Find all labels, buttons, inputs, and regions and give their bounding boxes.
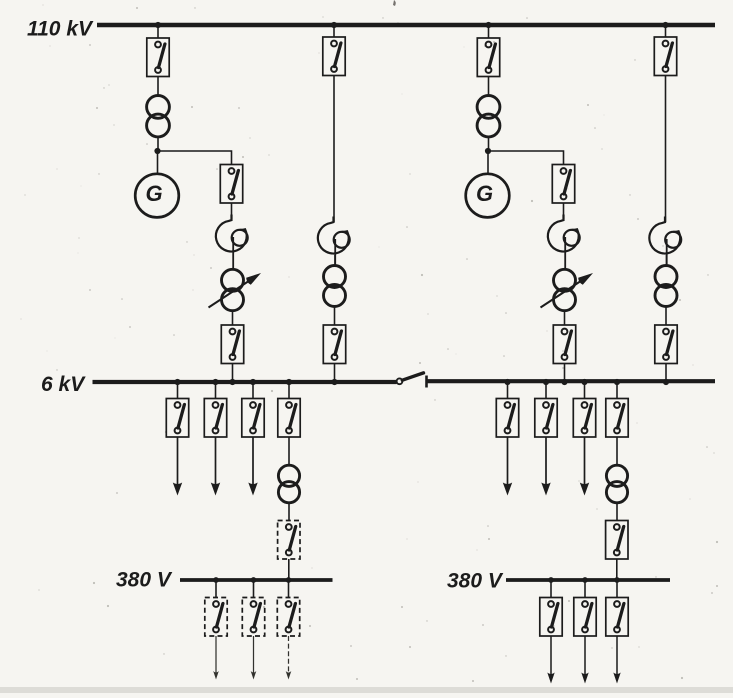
circuit breaker RG3 (380 V feeder) bbox=[606, 598, 628, 637]
junction dot L 380V feeder 3 bbox=[286, 577, 292, 583]
wire LB reactor to transformer bbox=[334, 255, 336, 266]
busbar 380 V (L) bbox=[180, 578, 333, 582]
wire RA breaker to transformer bbox=[488, 77, 490, 97]
load arrow LG1 bbox=[213, 636, 219, 680]
wire RB long drop to reactor bbox=[665, 76, 667, 223]
bus tie disconnector hinge bbox=[397, 378, 403, 384]
junction dot R 380V feeder 3 bbox=[614, 577, 620, 583]
reactor RL1 bbox=[548, 215, 580, 271]
distribution transformer RT4 (6/0.4 kV) bbox=[606, 465, 627, 503]
wire L 6kV feeder 1 stub bbox=[177, 382, 179, 399]
load arrow RG1 bbox=[547, 636, 554, 684]
transformer LT1 (unit step-up) bbox=[147, 96, 170, 137]
transformer RT1 (unit step-up) bbox=[477, 96, 500, 137]
circuit breaker LA3 (6 kV side) bbox=[221, 325, 243, 364]
wire L branch breaker to reactor bbox=[231, 203, 233, 219]
load arrow RF2 bbox=[541, 437, 550, 496]
wire LA3 breaker to 6 kV bus bbox=[232, 364, 234, 383]
wire R 6kV to 6/0.4 transformer bbox=[616, 437, 618, 466]
circuit breaker RG1 (380 V feeder) bbox=[540, 598, 562, 637]
junction dot RA on 110 kV bus bbox=[485, 22, 491, 28]
circuit breaker LLV (0.4 kV incomer) bbox=[278, 521, 300, 560]
circuit breaker RG2 (380 V feeder) bbox=[574, 598, 596, 637]
wire L branch node to breaker bbox=[158, 151, 232, 165]
load arrow LF3 bbox=[248, 437, 257, 496]
wire L 6kV to 6/0.4 transformer bbox=[288, 437, 290, 466]
svg-text:380 V: 380 V bbox=[447, 570, 504, 593]
junction dot RB on 6 kV bus bbox=[663, 379, 669, 385]
wire L 6kV feeder 2 stub bbox=[215, 382, 217, 399]
circuit breaker LA1 (110 kV side) bbox=[147, 38, 169, 77]
tap-changer arrow R bbox=[541, 273, 594, 308]
svg-text:G: G bbox=[476, 181, 493, 206]
circuit breaker RB1 (110 kV side) bbox=[654, 37, 676, 76]
wire LA transformer to node bbox=[157, 136, 159, 151]
reactor RL2 bbox=[649, 217, 681, 267]
circuit breaker RF4 (6 kV feeder) bbox=[606, 399, 628, 438]
load arrow RF1 bbox=[503, 437, 512, 496]
bus tie contact jaw bbox=[425, 376, 428, 388]
junction dot RA on 6 kV bus bbox=[561, 379, 567, 385]
wire L 380V feeder 1 stub bbox=[215, 580, 217, 598]
busbar 110 kV bbox=[97, 23, 715, 28]
ink speck top edge bbox=[393, 0, 396, 6]
circuit breaker RA2 (branch) bbox=[552, 165, 574, 204]
circuit breaker LF3 (6 kV feeder) bbox=[242, 399, 264, 438]
wire LB breaker to 6 kV bus bbox=[334, 364, 336, 383]
wire L transformer to LV breaker bbox=[288, 503, 290, 521]
circuit breaker RLV (0.4 kV incomer) bbox=[606, 521, 628, 560]
wire LB long drop to reactor bbox=[333, 76, 335, 223]
bus tie disconnector blade bbox=[402, 373, 423, 380]
wire RB transformer to breaker bbox=[665, 307, 667, 325]
wire RA node to generator bbox=[487, 151, 489, 174]
junction dot L 6kV feeder 1 bbox=[174, 379, 180, 385]
circuit breaker RA1 (110 kV side) bbox=[477, 38, 499, 77]
node dot RA bbox=[485, 148, 491, 154]
wire L 380V feeder 2 stub bbox=[253, 580, 255, 598]
circuit breaker LF4 (6 kV feeder) bbox=[278, 399, 300, 438]
wire RB breaker to 6 kV bus bbox=[665, 364, 667, 383]
wire RB bus to breaker bbox=[665, 25, 667, 37]
wire L LV breaker to 380 V bus bbox=[288, 559, 290, 580]
wire LA bus to breaker bbox=[157, 25, 159, 38]
junction dot L 380V feeder 1 bbox=[213, 577, 219, 583]
load arrow RF3 bbox=[580, 437, 589, 496]
junction dot R 6kV feeder 3 bbox=[581, 379, 587, 385]
circuit breaker LG3 (380 V feeder) bbox=[277, 598, 299, 637]
circuit breaker RF2 (6 kV feeder) bbox=[535, 399, 557, 438]
generator G (R) bbox=[466, 174, 510, 218]
node dot LA bbox=[154, 148, 160, 154]
wire R 380V feeder 2 stub bbox=[584, 580, 586, 598]
regulating transformer LT2 bbox=[222, 269, 244, 310]
circuit breaker LB1 (110 kV side) bbox=[323, 37, 345, 76]
junction dot LB on 6 kV bus bbox=[331, 379, 337, 385]
svg-text:G: G bbox=[145, 181, 162, 206]
circuit breaker LF1 (6 kV feeder) bbox=[166, 399, 188, 438]
svg-text:380 V: 380 V bbox=[116, 569, 173, 592]
distribution transformer LT4 (6/0.4 kV) bbox=[278, 465, 299, 503]
junction dot R 380V feeder 1 bbox=[548, 577, 554, 583]
svg-text:110 kV: 110 kV bbox=[27, 18, 94, 41]
wire R branch breaker to reactor bbox=[563, 203, 565, 219]
junction dot L 6kV feeder 4 bbox=[286, 379, 292, 385]
regulating transformer RT2 bbox=[554, 269, 576, 310]
wire L reg transformer to breaker bbox=[232, 311, 234, 326]
junction dot R 6kV feeder 4 bbox=[614, 379, 620, 385]
transformer LT3 bbox=[324, 266, 346, 307]
load arrow LG2 bbox=[251, 636, 257, 680]
load arrow LF2 bbox=[211, 437, 220, 496]
reactor LL1 bbox=[216, 215, 248, 271]
wire R transformer to LV breaker bbox=[616, 503, 618, 521]
circuit breaker LG2 (380 V feeder) bbox=[242, 598, 264, 637]
generator G (L) bbox=[135, 174, 179, 218]
junction dot L 6kV feeder 2 bbox=[212, 379, 218, 385]
wire R 6kV feeder 4 stub bbox=[616, 382, 618, 399]
svg-text:6 kV: 6 kV bbox=[41, 373, 86, 396]
busbar 6 kV left section bbox=[93, 380, 397, 384]
wire L 6kV feeder 4 stub bbox=[288, 382, 290, 399]
scan shadow bottom edge bbox=[0, 687, 733, 693]
circuit breaker RF3 (6 kV feeder) bbox=[573, 399, 595, 438]
wire R LV breaker to 380 V bus bbox=[616, 559, 618, 580]
circuit breaker LB2 (6 kV side) bbox=[323, 325, 345, 364]
junction dot R 6kV feeder 1 bbox=[504, 379, 510, 385]
wire R reg transformer to breaker bbox=[564, 311, 566, 326]
circuit breaker LF2 (6 kV feeder) bbox=[204, 399, 226, 438]
tap-changer arrow L bbox=[209, 273, 262, 308]
circuit breaker RA3 (6 kV side) bbox=[553, 325, 575, 364]
wire LA node to generator bbox=[157, 151, 159, 174]
wire LB transformer to breaker bbox=[334, 307, 336, 325]
wire L 6kV feeder 3 stub bbox=[252, 382, 254, 399]
load arrow LF1 bbox=[173, 437, 182, 496]
junction dot R 6kV feeder 2 bbox=[543, 379, 549, 385]
load arrow RG3 bbox=[613, 636, 620, 684]
wire R 380V feeder 1 stub bbox=[550, 580, 552, 598]
wire RA transformer to node bbox=[488, 136, 490, 151]
wire RB reactor to transformer bbox=[666, 255, 668, 266]
wire LA breaker to transformer bbox=[157, 77, 159, 97]
circuit breaker RF1 (6 kV feeder) bbox=[496, 399, 518, 438]
circuit breaker RB2 (6 kV side) bbox=[655, 325, 677, 364]
wire R 6kV feeder 3 stub bbox=[584, 382, 586, 399]
load arrow LG3 bbox=[286, 636, 292, 680]
junction dot L 6kV feeder 3 bbox=[250, 379, 256, 385]
junction dot LA on 6 kV bus bbox=[229, 379, 235, 385]
transformer RT3 bbox=[655, 266, 677, 307]
wire RA3 breaker to 6 kV bus bbox=[564, 364, 566, 383]
wire R 6kV feeder 2 stub bbox=[545, 382, 547, 399]
junction dot LA on 110 kV bus bbox=[155, 22, 161, 28]
wire RA bus to breaker bbox=[488, 25, 490, 38]
wire R 6kV feeder 1 stub bbox=[507, 382, 509, 399]
wire R 380V feeder 3 stub bbox=[616, 580, 618, 598]
junction dot R 380V feeder 2 bbox=[582, 577, 588, 583]
circuit breaker LG1 (380 V feeder) bbox=[205, 598, 227, 637]
wire LB bus to breaker bbox=[333, 25, 335, 37]
busbar 380 V (R) bbox=[506, 578, 670, 582]
junction dot LB on 110 kV bus bbox=[331, 22, 337, 28]
busbar 6 kV right section bbox=[427, 379, 716, 383]
junction dot L 380V feeder 2 bbox=[251, 577, 257, 583]
circuit breaker LA2 (branch) bbox=[220, 165, 242, 204]
wire L 380V feeder 3 stub bbox=[288, 580, 290, 598]
wire R branch node to breaker bbox=[488, 151, 564, 165]
junction dot RB on 110 kV bus bbox=[662, 22, 668, 28]
load arrow RG2 bbox=[581, 636, 588, 684]
reactor LL2 bbox=[318, 217, 350, 267]
